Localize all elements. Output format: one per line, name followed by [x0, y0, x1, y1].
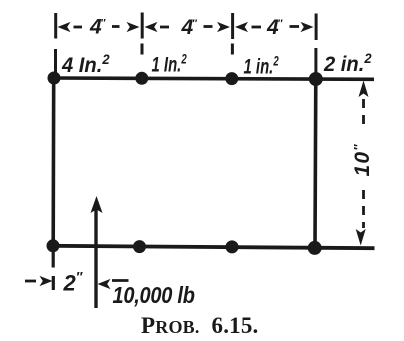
svg-text:10,000 lb: 10,000 lb [113, 282, 195, 309]
